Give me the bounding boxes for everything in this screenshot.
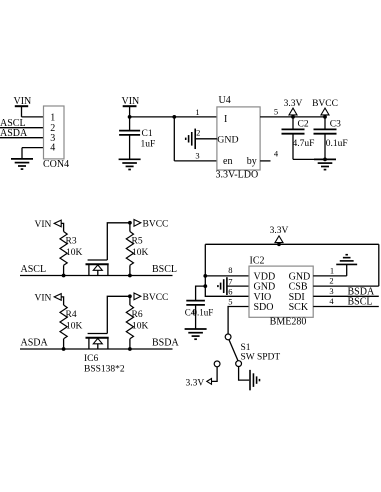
svg-text:1: 1 [330,265,334,275]
svg-text:3.3V: 3.3V [186,379,205,389]
svg-text:C1: C1 [142,129,153,139]
svg-text:SDO: SDO [254,302,274,313]
svg-text:10K: 10K [66,322,83,332]
svg-text:BVCC: BVCC [143,220,169,230]
svg-text:I: I [224,114,227,125]
svg-text:R5: R5 [132,237,143,247]
svg-text:BVCC: BVCC [312,99,338,109]
svg-text:R4: R4 [66,310,77,320]
svg-text:BSS138*2: BSS138*2 [84,365,125,375]
svg-text:3.3V: 3.3V [284,99,303,109]
svg-text:3.3V-LDO: 3.3V-LDO [216,170,259,181]
svg-text:U4: U4 [219,95,231,106]
svg-text:BSDA: BSDA [152,338,179,349]
svg-text:10K: 10K [66,248,83,258]
svg-text:2: 2 [329,276,333,286]
svg-text:1: 1 [50,113,55,124]
svg-text:10K: 10K [132,248,149,258]
svg-text:SCK: SCK [289,302,309,313]
svg-text:R3: R3 [66,237,77,247]
svg-text:IC2: IC2 [250,256,265,267]
svg-text:VIN: VIN [35,294,52,304]
svg-text:CON4: CON4 [43,159,69,170]
svg-text:3.3V: 3.3V [270,226,289,236]
svg-text:ASDA: ASDA [21,338,49,349]
svg-text:10K: 10K [132,322,149,332]
svg-text:3: 3 [195,151,199,161]
svg-text:en: en [223,156,232,167]
svg-text:4: 4 [50,143,55,154]
svg-text:1uF: 1uF [141,140,156,150]
svg-text:S1: S1 [241,343,251,353]
svg-text:BME280: BME280 [270,317,307,328]
svg-text:7: 7 [228,276,232,286]
svg-text:4.7uF: 4.7uF [293,139,315,149]
svg-text:VIN: VIN [35,220,52,230]
svg-text:C3: C3 [330,119,341,129]
svg-text:0.1uF: 0.1uF [193,307,214,317]
svg-text:ASCL: ASCL [21,264,47,275]
svg-text:by: by [247,156,257,167]
svg-text:3: 3 [329,286,333,296]
svg-text:BSCL: BSCL [152,264,177,275]
svg-text:0.1uF: 0.1uF [326,139,348,149]
svg-text:8: 8 [228,265,232,275]
svg-text:IC6: IC6 [84,354,99,364]
svg-text:SW SPDT: SW SPDT [241,353,281,363]
svg-text:5: 5 [228,297,232,307]
svg-text:BVCC: BVCC [143,293,169,303]
svg-text:2: 2 [196,127,200,137]
svg-text:R6: R6 [132,310,143,320]
svg-text:BSCL: BSCL [348,297,373,308]
svg-text:1: 1 [195,107,199,117]
svg-text:GND: GND [217,135,238,146]
svg-text:C2: C2 [298,119,309,129]
svg-text:6: 6 [228,287,232,297]
svg-text:5: 5 [274,107,278,117]
svg-text:ASDA: ASDA [0,128,28,139]
